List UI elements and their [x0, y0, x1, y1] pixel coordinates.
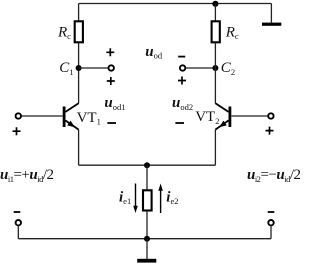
label + (input 2 polarity) — [266, 127, 274, 135]
wire bottom-left terminal to rail — [17, 225, 19, 238]
label − (uod right polarity) — [178, 56, 185, 58]
wire emitter rail — [79, 164, 216, 166]
wire bottom rail — [18, 238, 271, 240]
wire base VT1 to input terminal 1 — [21, 115, 63, 117]
current arrow ie2 (up) — [158, 184, 163, 214]
node junction dot top rail to Rc2 — [212, 1, 218, 7]
terminal output 1 — [109, 65, 114, 70]
current arrow ie1 (down) — [133, 184, 138, 214]
wire emitter VT1 down — [78, 130, 80, 166]
terminal bottom right — [268, 220, 273, 225]
wire Rc1 to collector corner (through node C1) — [78, 42, 80, 103]
wire emitter node to Re — [146, 165, 148, 190]
wire from top rail to R_c1 — [78, 4, 80, 22]
node C1 dot — [76, 65, 82, 71]
resistor Re — [143, 190, 152, 210]
wire bottom-right terminal to rail — [270, 225, 272, 238]
label − (uod2 bottom polarity) — [175, 122, 184, 124]
ground (bottom) — [137, 259, 156, 263]
wire emitter VT2 down — [214, 130, 216, 166]
label − (bottom left) — [14, 211, 21, 213]
label + (uod1 top polarity) — [107, 77, 115, 85]
resistor Rc (right) — [212, 21, 220, 42]
transistor VT2 — [215, 103, 231, 129]
label + (uod left polarity) — [106, 48, 114, 56]
transistor VT1 — [63, 103, 79, 129]
wire Re to bottom rail — [146, 211, 148, 239]
resistor Rc (left) — [75, 21, 83, 42]
terminal input 1 — [16, 113, 21, 118]
node bottom junction dot — [144, 236, 150, 242]
wire node C1 to output terminal 1 — [79, 67, 109, 69]
wire from top rail to R_c2 — [214, 4, 216, 22]
node emitter junction dot — [144, 162, 150, 168]
label + (uod2 top polarity) — [178, 77, 186, 85]
label − (bottom right) — [268, 211, 275, 213]
wire output terminal 2 to node C2 — [185, 67, 215, 69]
wire bottom node to ground — [146, 239, 148, 259]
ground (top right) — [262, 4, 281, 26]
wire top rail — [79, 3, 272, 5]
terminal input 2 — [268, 113, 273, 118]
terminal bottom left — [16, 220, 21, 225]
wire Rc2 to collector corner (through node C2) — [214, 42, 216, 103]
label + (input 1 polarity) — [13, 127, 21, 135]
wire base VT2 to input terminal 2 — [231, 115, 268, 117]
node C2 dot — [212, 65, 218, 71]
terminal output 2 — [180, 65, 185, 70]
label − (uod1 bottom polarity) — [107, 122, 116, 124]
